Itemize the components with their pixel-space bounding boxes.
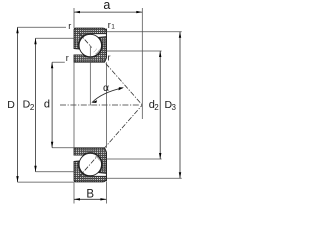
bearing axis centerline — [60, 104, 140, 106]
B extension left — [73, 182, 75, 204]
inner ring I2 — [74, 148, 106, 174]
outer ring O1 — [74, 28, 107, 49]
a extension right / pressure center line — [141, 8, 143, 119]
svg-text:r: r — [66, 53, 69, 63]
svg-text:2: 2 — [154, 103, 159, 112]
D2 extension top — [36, 37, 74, 39]
r1 label top right — [108, 20, 116, 31]
svg-text:r: r — [68, 21, 71, 31]
D extension bottom — [18, 181, 74, 183]
left face line between sections — [73, 62, 75, 148]
d extension top with r label — [52, 61, 65, 63]
svg-text:r: r — [108, 52, 111, 62]
contact line top (dash-dot) upper segment — [79, 33, 92, 48]
contact line top (dash-dot) lower segment — [100, 57, 143, 106]
top bearing section — [74, 28, 107, 62]
right face solid line bottom section — [105, 152, 107, 181]
d2 extension bottom — [107, 158, 162, 160]
dimension D2 — [23, 38, 37, 172]
bottom bearing section (mirror) — [74, 148, 107, 182]
svg-text:a: a — [103, 0, 110, 12]
a extension left — [73, 8, 75, 28]
D extension top with r label — [18, 26, 67, 28]
ball centers radial line — [89, 46, 91, 106]
D3 extension bottom — [107, 177, 182, 179]
dimension D3 — [165, 32, 182, 178]
d extension bottom — [52, 147, 74, 149]
svg-text:d: d — [44, 99, 50, 111]
right face line between sections — [105, 62, 107, 148]
ball shading — [96, 50, 100, 55]
inner ring I1 — [74, 37, 106, 63]
dimension d — [44, 62, 53, 148]
D2 extension bottom — [36, 171, 74, 173]
ball B1 — [79, 34, 101, 56]
dimension D — [7, 27, 19, 182]
contact line bottom (dash-dot) — [79, 105, 143, 178]
svg-text:B: B — [86, 188, 94, 200]
ball B2 — [79, 153, 101, 175]
D3 extension top — [107, 31, 182, 33]
angle alpha arc — [91, 82, 124, 103]
outer ring O2 — [74, 161, 107, 182]
dimension a — [74, 0, 142, 13]
svg-text:3: 3 — [172, 103, 177, 112]
svg-text:1: 1 — [111, 24, 115, 31]
svg-text:D: D — [7, 99, 15, 111]
d2 extension top — [107, 50, 162, 52]
svg-text:α: α — [103, 82, 109, 94]
B extension right — [105, 182, 107, 204]
dimension B — [74, 188, 106, 200]
dimension d2 — [149, 51, 162, 159]
svg-text:2: 2 — [30, 103, 35, 112]
right face solid line top section — [105, 29, 107, 58]
